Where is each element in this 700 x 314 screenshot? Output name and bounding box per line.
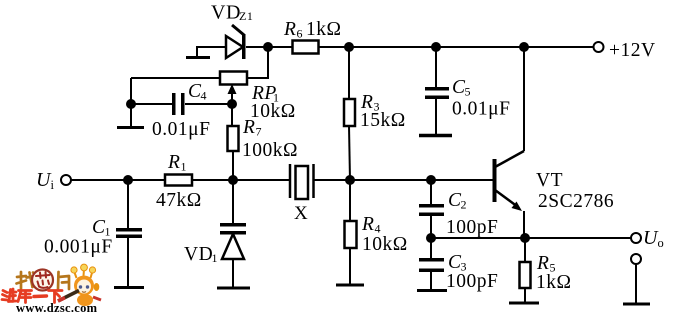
svg-text:15kΩ: 15kΩ — [360, 110, 406, 131]
svg-text:i: i — [51, 178, 55, 192]
svg-text:X: X — [294, 203, 308, 224]
svg-text:R: R — [167, 152, 180, 173]
svg-text:R: R — [536, 253, 549, 274]
svg-text:o: o — [658, 236, 665, 250]
svg-text:1: 1 — [181, 160, 188, 174]
svg-text:100pF: 100pF — [446, 217, 498, 238]
svg-text:10kΩ: 10kΩ — [362, 234, 408, 255]
svg-text:100pF: 100pF — [446, 271, 498, 292]
svg-text:6: 6 — [297, 27, 304, 41]
svg-text:0.001μF: 0.001μF — [44, 237, 113, 258]
svg-text:0.01μF: 0.01μF — [152, 119, 210, 140]
svg-text:100kΩ: 100kΩ — [242, 140, 298, 161]
svg-text:2SC2786: 2SC2786 — [538, 191, 614, 212]
svg-text:0.01μF: 0.01μF — [452, 99, 510, 120]
svg-text:1: 1 — [212, 251, 219, 265]
svg-text:www.dzsc.com: www.dzsc.com — [16, 301, 98, 314]
svg-text:R: R — [242, 117, 255, 138]
svg-text:7: 7 — [256, 125, 263, 139]
svg-text:1kΩ: 1kΩ — [536, 272, 572, 293]
svg-text:Z1: Z1 — [239, 9, 253, 23]
svg-text:VT: VT — [536, 170, 563, 191]
svg-text:2: 2 — [461, 198, 468, 212]
svg-text:10kΩ: 10kΩ — [250, 101, 296, 122]
svg-text:5: 5 — [465, 85, 472, 99]
svg-text:+12V: +12V — [609, 40, 656, 61]
svg-text:47kΩ: 47kΩ — [156, 190, 202, 211]
svg-text:1kΩ: 1kΩ — [306, 19, 342, 40]
svg-text:R: R — [361, 214, 374, 235]
svg-text:4: 4 — [201, 89, 208, 103]
svg-text:VD: VD — [211, 2, 241, 24]
svg-text:R: R — [283, 19, 296, 40]
svg-text:VD: VD — [184, 244, 213, 265]
